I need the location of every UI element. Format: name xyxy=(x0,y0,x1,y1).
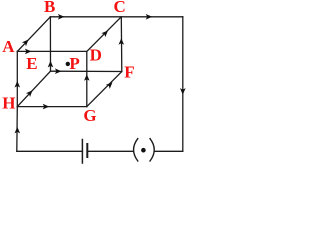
svg-text:P: P xyxy=(69,54,79,73)
svg-text:H: H xyxy=(2,94,15,113)
svg-text:C: C xyxy=(114,0,126,16)
svg-text:F: F xyxy=(124,63,134,82)
svg-text:D: D xyxy=(90,46,102,65)
svg-text:A: A xyxy=(2,37,15,56)
svg-text:G: G xyxy=(83,106,96,125)
svg-text:B: B xyxy=(44,0,55,16)
svg-text:E: E xyxy=(26,54,37,73)
